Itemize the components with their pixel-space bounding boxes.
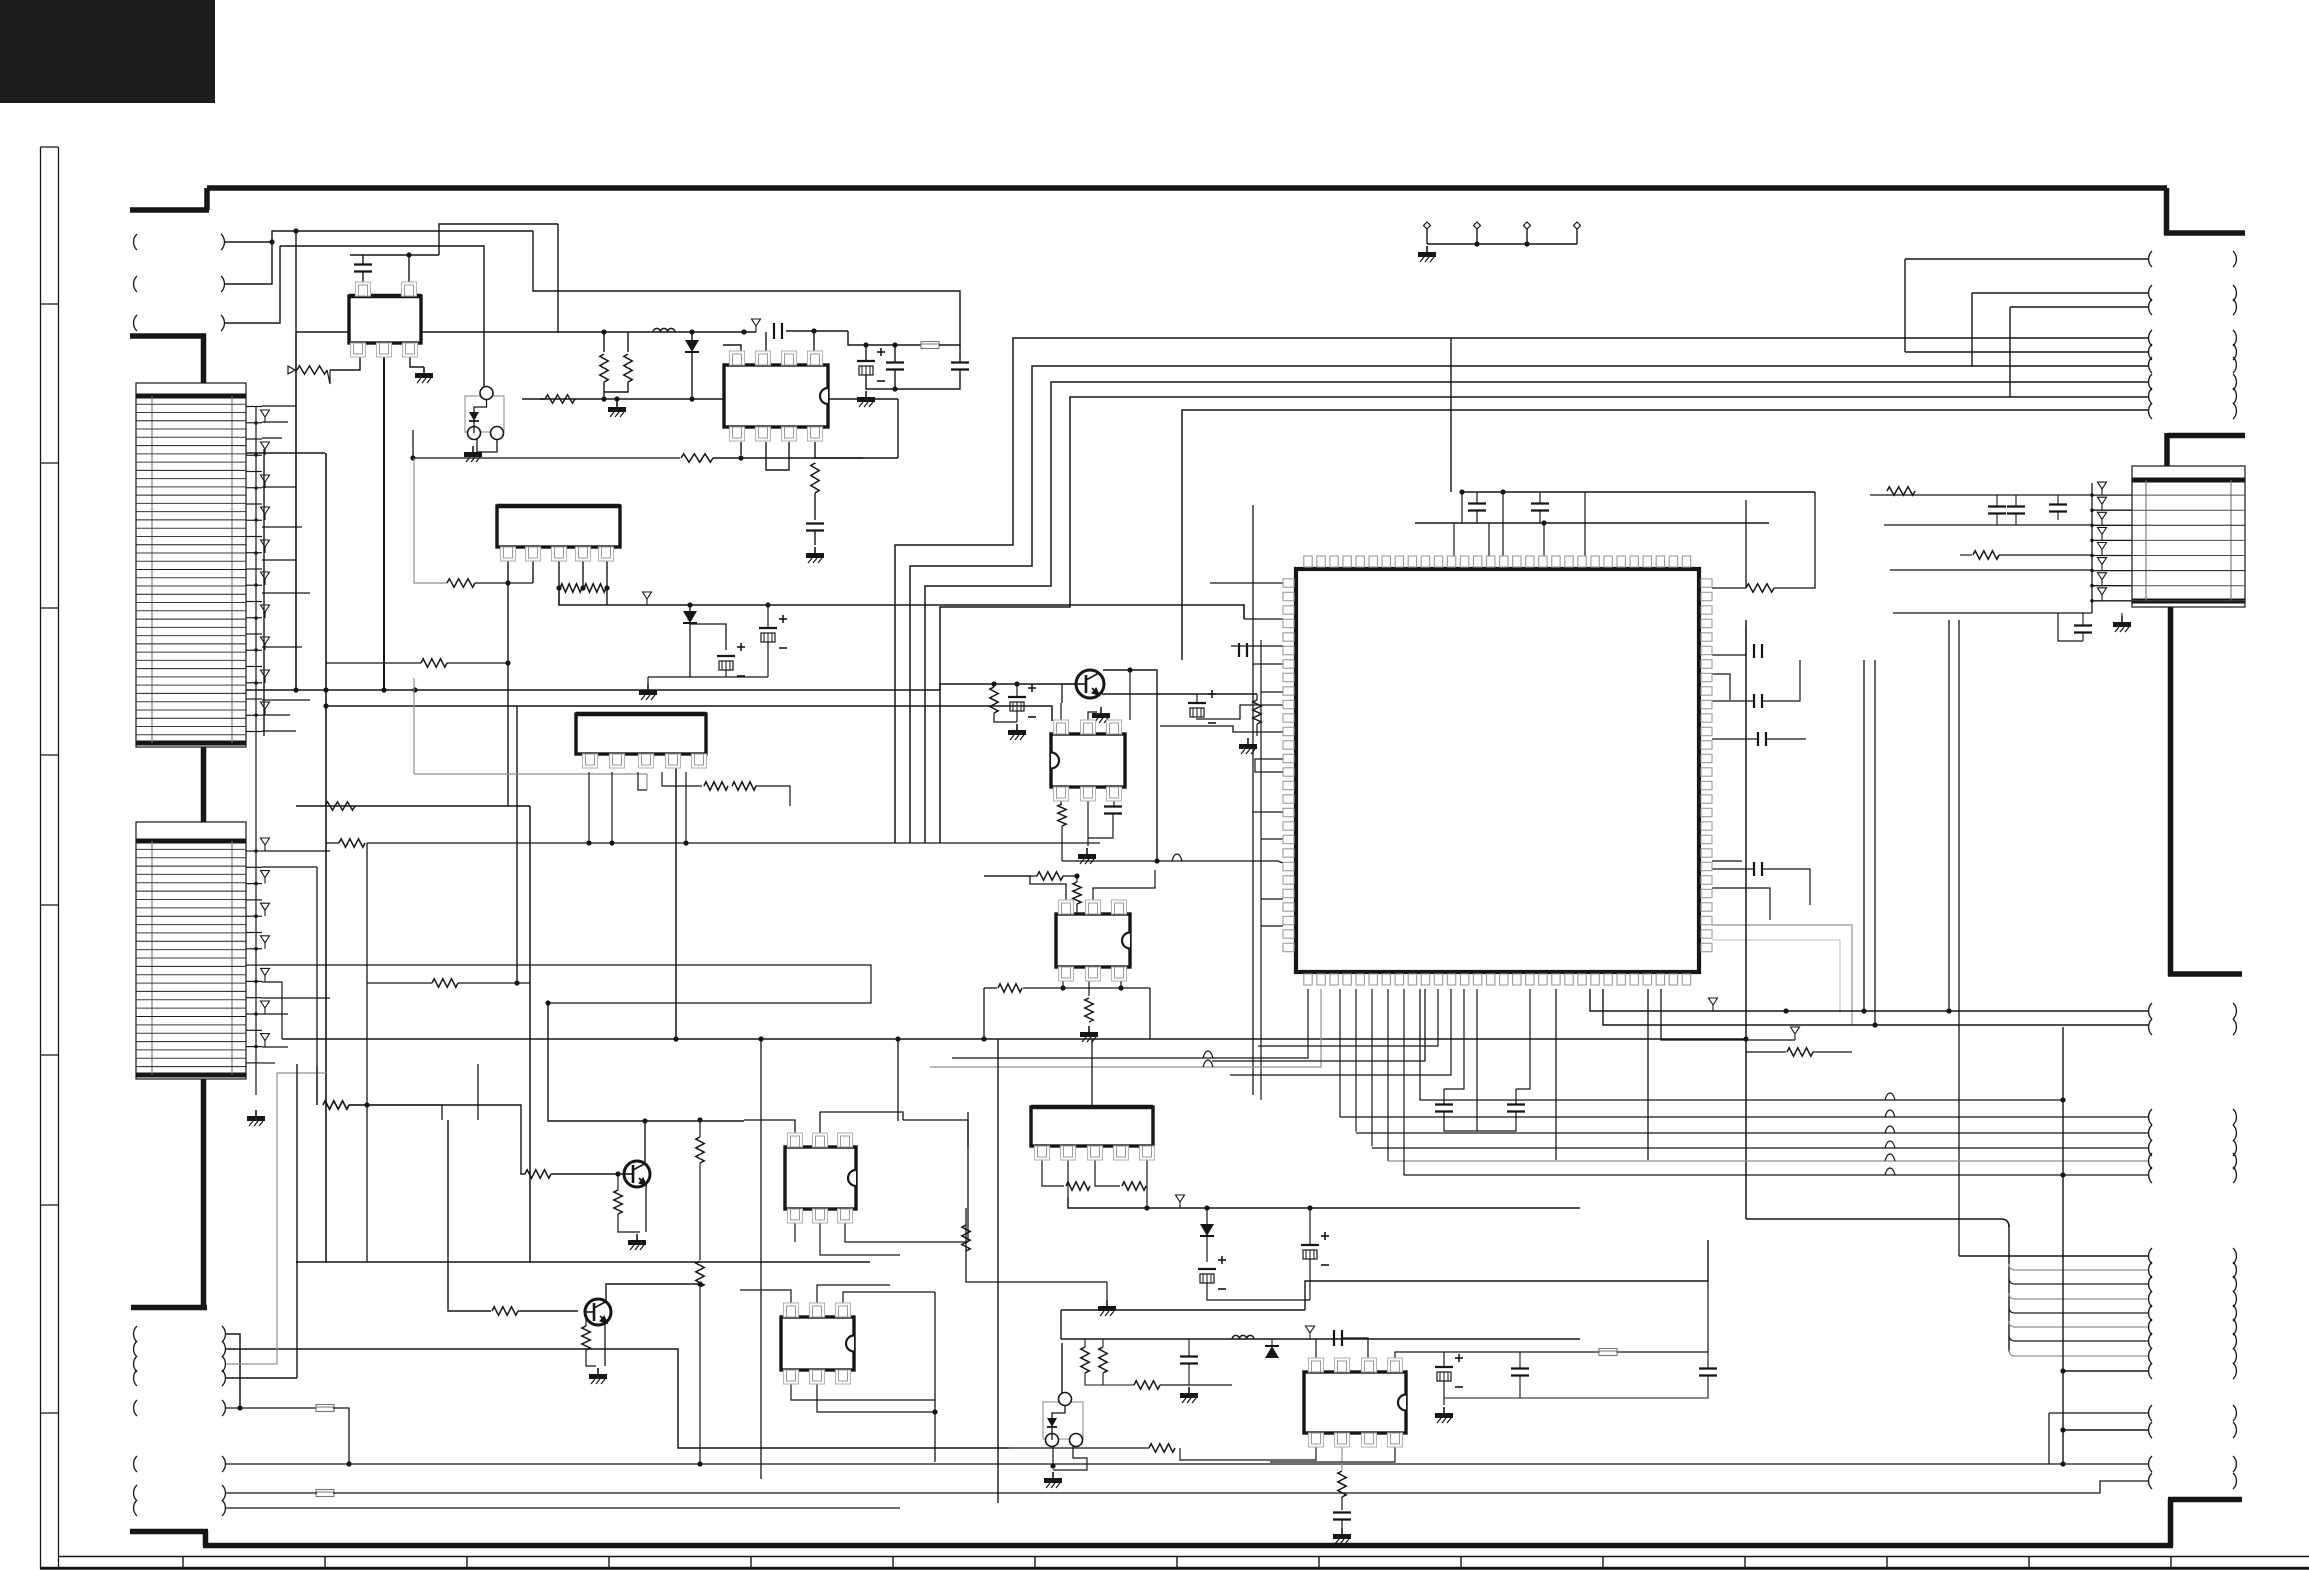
IC U3 (SIP) (497, 506, 620, 547)
wire (247, 452, 325, 454)
wire (794, 1223, 796, 1242)
wire (408, 255, 410, 282)
wire (1520, 1351, 1599, 1353)
wire (766, 442, 789, 470)
resistor R1 (297, 366, 327, 374)
ground (636, 1234, 638, 1240)
wire (1206, 1208, 1208, 1224)
wire (1188, 1339, 1190, 1356)
wire (952, 989, 1308, 1058)
wire (226, 1407, 317, 1409)
wire (934, 1412, 936, 1462)
wire (477, 439, 497, 452)
wire bus line 5 (1182, 410, 2148, 660)
wire (316, 1066, 318, 1105)
wire (845, 1223, 968, 1242)
wire (1813, 1051, 1852, 1053)
wire (815, 442, 863, 458)
diode D3 (1200, 1224, 1214, 1236)
resistor R14 (1037, 872, 1063, 880)
wire U9 pins down (1042, 1160, 1064, 1186)
wire elbow down (533, 231, 960, 347)
wire (740, 442, 742, 455)
wire (939, 344, 960, 346)
bus vertical (897, 1039, 899, 1121)
ground (1100, 707, 1102, 713)
antenna marker (752, 319, 761, 326)
wire (585, 1311, 587, 1326)
wire (1063, 875, 1077, 877)
wire (326, 662, 421, 664)
resistor R5 (811, 463, 819, 493)
wire (1009, 1447, 1149, 1449)
wire Q1 emitter (1102, 693, 1257, 695)
resistor R27 (492, 1307, 518, 1315)
transistor Q2 (624, 1161, 650, 1187)
wire (645, 1120, 744, 1122)
wire (1555, 989, 1557, 1160)
wire rail below U9 (1068, 1197, 1580, 1208)
wire (1762, 869, 1810, 905)
ground (597, 1368, 599, 1374)
capacitor C2 (coupling) (773, 323, 775, 339)
diode D1 (685, 340, 699, 352)
wire bus line 3 (925, 382, 2148, 843)
wire U9 top feed (1091, 1039, 1093, 1107)
wire main 605 (559, 588, 1244, 619)
wire Q1 base (1062, 684, 1076, 703)
electrolytic C7 (717, 655, 735, 657)
node bracket row b4 (134, 1370, 137, 1386)
wire (2009, 307, 2011, 397)
wire resistor pair taps (627, 332, 629, 352)
wire (349, 1105, 525, 1174)
wire long (226, 1463, 2148, 1465)
wire (1146, 1186, 1148, 1208)
wire (848, 331, 921, 345)
node bracket row b1 (134, 1326, 137, 1342)
wire U1 pin1 down (330, 357, 360, 370)
node brackets right group5 (2149, 1405, 2152, 1421)
wire (2015, 495, 2017, 506)
wire group4 comb spine (2008, 1225, 2010, 1352)
ground (1341, 1528, 1343, 1534)
wire rail 1011 (1590, 989, 2148, 1011)
node brackets right group3 (2149, 1109, 2152, 1125)
bus vertical (366, 843, 368, 983)
wire (1341, 1497, 1343, 1510)
capacitor C6 (806, 522, 824, 524)
wire (2121, 613, 2123, 616)
wire bus line 6 (1905, 351, 2148, 353)
photocoupler PC2 (1043, 1402, 1083, 1439)
node brackets right top (2149, 251, 2152, 267)
diode D2 (683, 611, 697, 623)
wire (1746, 1051, 1786, 1053)
wire row bottom (1893, 612, 2092, 614)
wire (1341, 1447, 1343, 1470)
wire gray mid (414, 773, 647, 775)
wire (523, 805, 530, 807)
wire U10 bottom (1180, 1447, 1316, 1460)
wire (699, 1163, 701, 1260)
resistor R26 (696, 1261, 704, 1287)
capacitor C29 (1699, 1367, 1717, 1369)
ground (2121, 616, 2123, 622)
wire (843, 1292, 935, 1303)
wire top rail (272, 231, 533, 242)
node bracket row b6 (134, 1456, 137, 1472)
resistor R28 (582, 1326, 590, 1350)
fuse F3 (316, 1490, 334, 1497)
ground (1188, 1387, 1190, 1393)
wire (1103, 1384, 1134, 1386)
antenna markers right (2091, 483, 2093, 613)
board frame left shelf (130, 333, 206, 339)
resistor R6 (681, 454, 713, 462)
IC U1 (5-pin regulator, top-left) (349, 296, 421, 343)
resistor R24 (614, 1190, 622, 1214)
resistor R12 (1058, 804, 1066, 826)
wire (413, 430, 680, 458)
wire (327, 370, 330, 384)
wire (1395, 1352, 1444, 1360)
wire (1087, 801, 1089, 846)
test point arrow (288, 366, 295, 374)
wire (477, 1064, 479, 1120)
wire (1085, 1373, 1103, 1385)
wire (786, 330, 848, 332)
wire to PC1 top (280, 246, 484, 389)
wire Q2 base chain (316, 867, 318, 1105)
wire (1129, 670, 1131, 720)
resistor R23 (525, 1170, 551, 1178)
resistor R35 (1338, 1471, 1346, 1497)
bus vertical (366, 983, 368, 1262)
capacitor C25 (1180, 1355, 1198, 1357)
wire (699, 1120, 701, 1137)
wire (2063, 1429, 2148, 1431)
wire (1516, 989, 1530, 1089)
ground (1086, 848, 1088, 854)
ground bus 2 with pin markers (261, 838, 270, 845)
wire (447, 662, 508, 664)
wire Q3 base chain (448, 1120, 491, 1311)
wire (1960, 554, 1972, 556)
wire (959, 345, 961, 362)
node bracket row b7 (134, 1485, 137, 1501)
ground (1106, 1300, 1108, 1306)
bus vertical (295, 231, 297, 332)
wire (226, 1377, 297, 1379)
ground (1076, 917, 1078, 923)
wire (367, 982, 432, 984)
capacitor C18 (1988, 505, 2006, 507)
transistor Q3 (585, 1299, 611, 1325)
resistor R17 (1746, 584, 1774, 592)
wire (226, 1507, 900, 1509)
capacitor C9 (1531, 502, 1549, 504)
wire long (226, 1492, 317, 1494)
electrolytic C31 (759, 627, 777, 629)
wire (894, 345, 896, 362)
wire rail A (246, 684, 1076, 690)
wire (2092, 494, 2132, 496)
resistor R21 (1887, 487, 1915, 495)
bus vertical (1958, 620, 1960, 1256)
wire (225, 246, 280, 323)
wire hops (1885, 1093, 1895, 1100)
resistor R31 (962, 1225, 970, 1251)
wire U3 pin1 bus down (507, 561, 509, 806)
capacitor C19 (2007, 505, 2025, 507)
wire (558, 561, 560, 588)
wire (1661, 989, 1795, 1040)
wire (1762, 660, 1800, 701)
resistor R29 (1066, 1182, 1090, 1190)
node row3 bracket (134, 315, 137, 331)
wire to U2 pin2 (765, 332, 767, 360)
connector CN3 (right, hatched) (2132, 466, 2245, 607)
wire bundle from QFP bottom to right connector groups (1339, 989, 1341, 1117)
wire (518, 1310, 578, 1312)
wire (1539, 492, 1541, 503)
wire stubs connector2 (262, 850, 330, 852)
diode D4 (1265, 1346, 1279, 1358)
wire (1084, 1339, 1086, 1347)
wire mid resistor row (296, 805, 523, 807)
wire (586, 1350, 596, 1366)
wire (1712, 888, 1770, 920)
fuse F4 (1599, 1349, 1617, 1356)
wire (1415, 522, 1769, 524)
wire (1443, 1089, 1445, 1104)
wire (1766, 738, 1806, 740)
resistor R42 (323, 1101, 349, 1109)
wire (413, 678, 415, 774)
board frame bottom-right notch (2168, 1499, 2174, 1546)
wire (646, 774, 648, 790)
wire PC2 bottoms (1052, 1446, 1054, 1466)
resistor R41 (732, 782, 756, 790)
wire Q3 emitter (604, 1324, 606, 1366)
IC U8 (8-pin DIP) (781, 1317, 854, 1370)
wire (1207, 1283, 1310, 1300)
wire (820, 1112, 903, 1133)
wire (1016, 684, 1018, 697)
resistor R22 (323, 1101, 349, 1109)
bus vertical (1745, 620, 1747, 1219)
ground (472, 446, 474, 452)
antenna marker (1176, 1195, 1185, 1202)
wire (1462, 491, 1815, 493)
wire (756, 786, 790, 806)
wire (1076, 876, 1078, 882)
bus vertical (516, 706, 518, 983)
wire (865, 345, 867, 361)
board frame top edge (207, 185, 2167, 191)
wire U5 bottom (1060, 801, 1062, 805)
resistor R44 (998, 984, 1022, 992)
wire (603, 382, 605, 399)
node bracket row b2 (134, 1341, 137, 1357)
wire U3 pin2 down (532, 561, 534, 583)
capacitor C28 (1511, 1367, 1529, 1369)
wire (820, 1223, 900, 1255)
electrolytic C12 (1188, 702, 1206, 704)
wire PC2 top (1061, 1343, 1063, 1396)
wire (1712, 868, 1754, 870)
resistor R11 (1253, 700, 1261, 724)
wire row5 left (1890, 569, 2092, 571)
wire Q2 collector (548, 1003, 645, 1162)
wire (1061, 826, 1063, 861)
wire (1106, 1282, 1108, 1300)
capacitor C21 (1435, 1103, 1453, 1105)
photocoupler PC1 (465, 396, 504, 432)
wire (1444, 1112, 1516, 1131)
wire (1712, 587, 1746, 589)
resistor R32 (1081, 1347, 1089, 1373)
resistor R36 (1149, 1444, 1175, 1452)
wire (1271, 1339, 1273, 1346)
board frame top-right notch (2164, 188, 2170, 235)
electrolytic C11 (1008, 696, 1026, 698)
board frame right connector shelf (2167, 433, 2245, 439)
wire (1444, 1351, 1520, 1353)
ground (423, 367, 425, 373)
wire (1420, 989, 2063, 1100)
wire (2058, 613, 2083, 641)
resistor R18 (1973, 551, 1999, 559)
wire (529, 806, 531, 1262)
wire (1342, 1338, 1368, 1360)
ground (1088, 1026, 1090, 1032)
wire (476, 439, 478, 444)
wire gray (1712, 925, 1852, 1025)
ground (647, 684, 649, 690)
wire (648, 676, 768, 678)
IC U7 (8-pin DIP) (785, 1147, 856, 1209)
wire (1476, 492, 1478, 503)
node brackets right group6 (2149, 1456, 2152, 1472)
wire Q1 collector (1103, 670, 1157, 861)
wire (1972, 292, 2148, 294)
wire (1230, 989, 1451, 1075)
bus vertical (997, 1039, 999, 1503)
resistor R37 (339, 839, 365, 847)
wire bus line 4 (940, 397, 2148, 843)
resistor R10 (990, 687, 998, 713)
node brackets right group2 (2149, 1003, 2152, 1019)
bus vertical left of QFP 2 (1260, 640, 1262, 1100)
wire rail 1025 (1603, 989, 2148, 1025)
wire main rail (296, 331, 756, 333)
wire stubs connector1 (262, 405, 296, 407)
wire (966, 1208, 1107, 1282)
resistor R4 (545, 395, 575, 403)
wire (2010, 306, 2148, 308)
left margin strip (40, 147, 42, 1569)
wire (691, 332, 693, 340)
connector CN2 (left, hatched) (136, 822, 246, 1079)
wire staircase into QFP left (1210, 582, 1283, 584)
board frame left segment between connectors (201, 745, 207, 824)
wire (984, 875, 1037, 877)
IC U9 (SIP) (1031, 1107, 1153, 1146)
node bracket row b8 (134, 1500, 137, 1516)
node bracket row b3 (134, 1356, 137, 1372)
wire gray vertical (414, 458, 447, 583)
capacitor C17 (1753, 862, 1755, 876)
ground (1052, 1472, 1054, 1478)
wire cap bottoms rail (866, 370, 960, 389)
wire (1647, 989, 1649, 1160)
microcontroller IC (QFP) (1296, 569, 1699, 972)
bus vertical (1450, 338, 1452, 492)
wire dark elbow to comb spine (1746, 1219, 2009, 1227)
capacitor C16 (1757, 732, 1759, 746)
ground (1247, 738, 1249, 744)
wire (1707, 1352, 1709, 1368)
wire (691, 352, 693, 399)
wire gray (1712, 940, 1840, 1013)
bus vertical (1874, 660, 1876, 1025)
wire to U2 pin4 (813, 331, 815, 360)
wire (2082, 613, 2084, 625)
capacitor C4 (886, 361, 904, 363)
wire (1196, 694, 1198, 703)
wire (1309, 1208, 1311, 1245)
wire (894, 370, 896, 389)
wire (367, 842, 1100, 844)
wire U7 top rail (744, 1120, 795, 1133)
wire (814, 493, 816, 520)
wire (675, 719, 677, 1039)
wire (1061, 1309, 1305, 1311)
wire (767, 605, 769, 628)
wire (814, 531, 816, 545)
resistor R16 (1085, 998, 1093, 1022)
IC U4 (SIP) (576, 714, 706, 754)
wire (647, 677, 649, 684)
wire (814, 463, 816, 464)
wire (618, 1214, 640, 1232)
wire U6 bottom (1062, 981, 1064, 988)
wire (903, 1120, 968, 1147)
bus vertical (325, 453, 327, 1262)
wire row 1256 from connector bus (1959, 1255, 2148, 1257)
capacitor C5 (951, 361, 969, 363)
capacitor C8 (1468, 502, 1486, 504)
antenna marker (1306, 1326, 1315, 1333)
wire (1255, 759, 1283, 772)
wire row3 left (1884, 524, 2092, 526)
wire verticals to rails (1948, 620, 1950, 1011)
wire (439, 224, 558, 255)
wire (1023, 987, 1150, 989)
wire (295, 369, 297, 371)
wire (1256, 694, 1258, 700)
node brackets right group4 (2149, 1248, 2152, 1264)
wire (2063, 1370, 2148, 1372)
ground (1016, 724, 1018, 730)
ground (255, 1110, 257, 1116)
wire (1774, 492, 1815, 588)
board frame bottom edge (203, 1543, 2173, 1549)
wire stubs to QFP top pins (1461, 492, 1463, 523)
wire (617, 1174, 619, 1190)
